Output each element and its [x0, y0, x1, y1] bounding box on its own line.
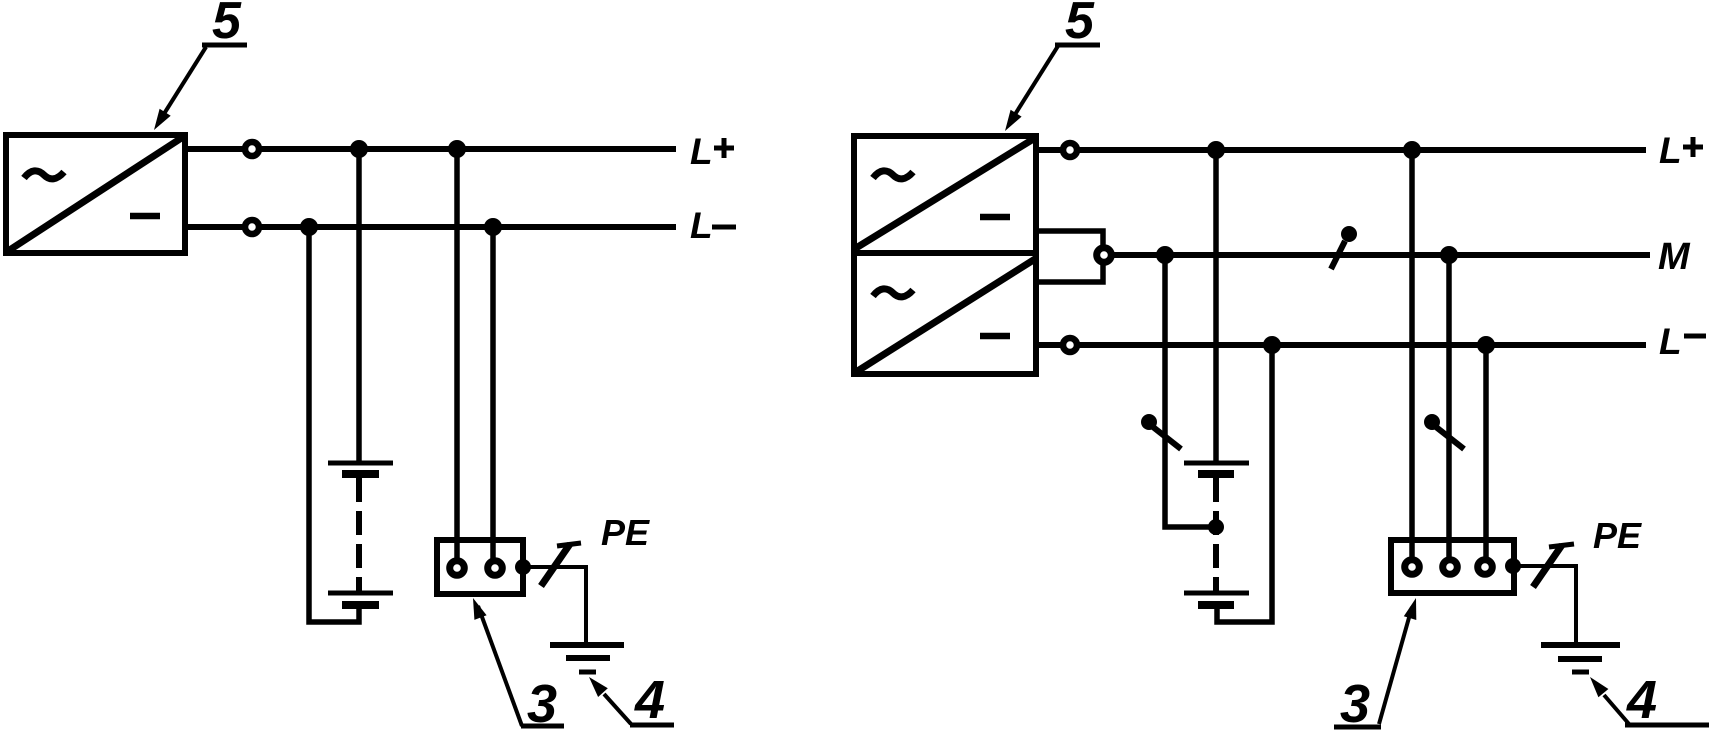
svg-text:4: 4 — [634, 670, 665, 730]
svg-text:L: L — [690, 131, 713, 172]
svg-text:PE: PE — [601, 512, 650, 553]
svg-text:L: L — [1659, 130, 1682, 171]
svg-text:3: 3 — [527, 674, 557, 731]
svg-text:4: 4 — [1626, 670, 1657, 730]
svg-text:3: 3 — [1340, 674, 1370, 731]
svg-text:L: L — [690, 205, 713, 246]
svg-text:M: M — [1658, 236, 1691, 278]
svg-text:L: L — [1659, 321, 1682, 362]
svg-text:PE: PE — [1593, 515, 1642, 556]
